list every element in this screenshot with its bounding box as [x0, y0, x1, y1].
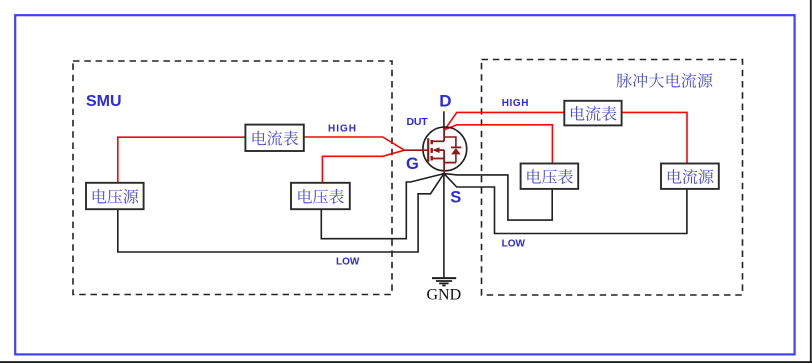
svg-text:G: G — [406, 155, 419, 173]
current source 电流源 (right) — [661, 164, 719, 189]
label 脉冲大电流源 (pulse high-current source) — [617, 73, 713, 88]
svg-text:GND: GND — [426, 287, 461, 304]
ground symbol — [432, 278, 456, 285]
wire: source node LOW return to current source (black) — [444, 174, 687, 234]
wire: drain node to ammeter (red, HIGH right) — [445, 112, 565, 129]
wire: voltmeter sense to gate node (red) — [322, 150, 404, 182]
wire: ammeter to current source (red) — [622, 112, 687, 163]
window bottom edge line — [0, 361, 812, 363]
voltage source 电压源 (SMU) — [86, 183, 144, 209]
svg-text:SMU: SMU — [86, 93, 122, 110]
svg-text:HIGH: HIGH — [502, 98, 529, 109]
transistor DUT package circle — [423, 127, 467, 171]
svg-text:DUT: DUT — [407, 116, 429, 128]
window right edge line — [810, 0, 812, 363]
wire: voltage source HIGH to ammeter (red) — [118, 137, 245, 182]
svg-text:HIGH: HIGH — [328, 124, 357, 135]
wire: source node to voltmeter LOW (black) — [444, 174, 552, 221]
wire: source node to ground (black) — [443, 173, 445, 277]
wire: drain stub (black) — [443, 111, 445, 130]
svg-text:LOW: LOW — [336, 257, 360, 268]
wire: ammeter to gate node (red, HIGH) — [304, 137, 405, 150]
transistor Q1 MOSFET symbol — [404, 130, 461, 174]
svg-text:LOW: LOW — [502, 239, 526, 250]
SMU instrument dashed enclosure — [73, 61, 392, 295]
svg-text:S: S — [450, 189, 461, 207]
voltmeter 电压表 (SMU) — [291, 183, 350, 209]
wire: voltmeter LOW return to source node (black) — [321, 174, 444, 239]
svg-text:D: D — [439, 92, 451, 111]
ammeter 电流表 (right) — [564, 101, 621, 126]
voltmeter 电压表 (right) — [521, 164, 579, 189]
ammeter 电流表 (SMU) — [245, 125, 303, 151]
wire: voltage source LOW return to source node (black) — [118, 174, 444, 252]
pulse current source dashed enclosure — [482, 60, 743, 296]
wire: drain node to voltmeter sense (red) — [445, 125, 553, 164]
